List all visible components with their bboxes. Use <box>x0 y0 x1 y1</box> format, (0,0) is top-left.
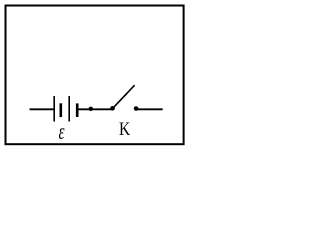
switch K pivot dot <box>110 106 115 111</box>
battery cell ε long plate 1 <box>53 96 55 122</box>
switch K blade (open) <box>113 85 134 108</box>
wire battery to switch pivot <box>79 108 113 110</box>
switch K contact dot <box>134 106 139 111</box>
svg-text:K: K <box>119 119 131 140</box>
svg-text:ε: ε <box>59 120 65 145</box>
battery cell ε long plate 2 <box>68 96 70 122</box>
wire right lead from switch <box>137 108 163 110</box>
wire left lead to battery <box>30 108 54 110</box>
battery cell ε short plate 2 <box>76 103 79 117</box>
battery cell ε short plate 1 <box>59 103 62 117</box>
node junction dot <box>89 107 93 111</box>
